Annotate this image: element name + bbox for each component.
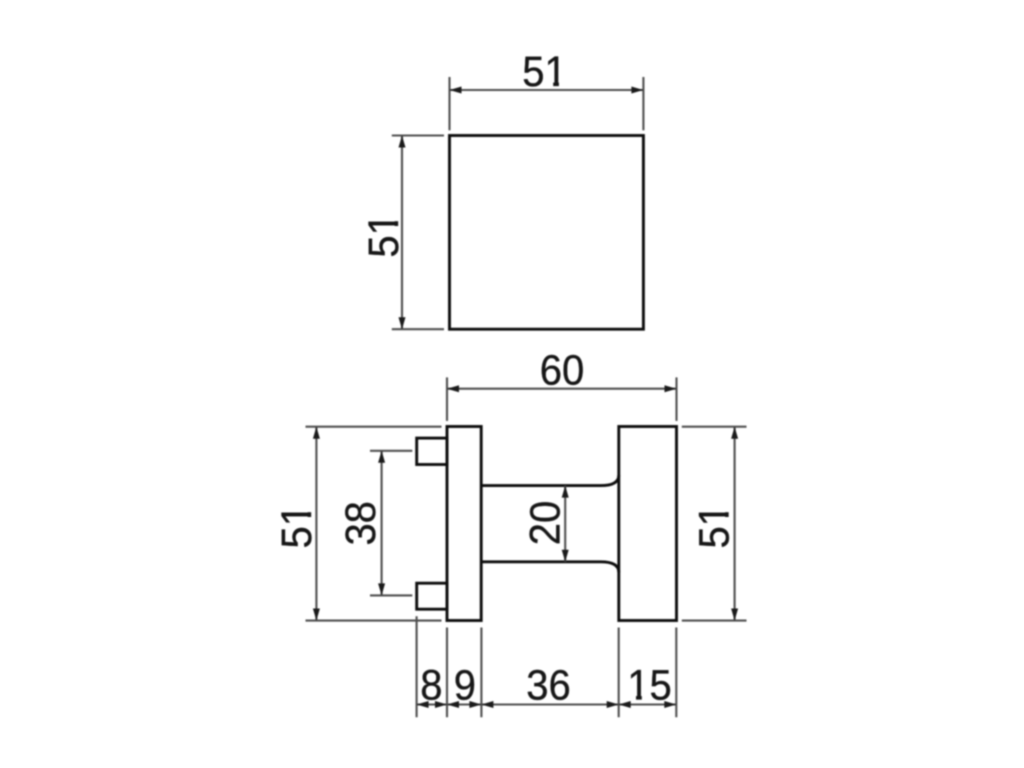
dimension 51 (top view height): top arrowhead xyxy=(399,136,406,148)
dimension 60 (overall depth): extension line right xyxy=(675,377,677,421)
dimension 51 (top view height): label serif mask xyxy=(394,214,400,221)
svg-text:36: 36 xyxy=(526,661,571,709)
chain dimensions: extension line at plate left face xyxy=(446,628,448,718)
dimension 60 (overall depth): extension line left xyxy=(446,377,448,421)
chain dimensions: extension line at knob left face xyxy=(618,628,620,718)
dimension 51 (side view left height): extension line bottom xyxy=(306,620,442,622)
dimension 51 (top view width): left arrowhead xyxy=(450,87,462,94)
svg-text:15: 15 xyxy=(627,661,672,709)
svg-text:51: 51 xyxy=(273,504,321,549)
dimension 20 (neck thickness): bottom arrowhead xyxy=(562,550,569,562)
dimension 51 (top view height): bottom arrowhead xyxy=(399,317,406,329)
dimension 51 (side view right height): extension line bottom xyxy=(682,620,747,622)
dimension 51 (side view right height): dimension line xyxy=(734,427,736,621)
side view: lower mounting stud xyxy=(417,583,447,609)
dimension 51 (top view width): label serif mask xyxy=(546,82,553,88)
dimension 9 (plate thickness): left arrowhead xyxy=(447,701,459,708)
side view: neck bottom edge with fillet xyxy=(481,562,619,572)
dimension 51 (side view right height): label serif mask xyxy=(724,505,730,512)
top view: square knob face outline xyxy=(450,136,644,330)
dimension 51 (side view left height): extension line top xyxy=(306,426,442,428)
dimension 38 (stud spacing): bottom arrowhead xyxy=(378,583,385,595)
dimension 38 (stud spacing): dimension line xyxy=(381,451,383,596)
dimension 51 (top view height): extension line top xyxy=(392,134,444,136)
dimension 51 (side view right height): top arrowhead xyxy=(731,427,738,439)
dimension 51 (side view left height): bottom arrowhead xyxy=(313,609,320,621)
chain dimensions: extension line at knob right face xyxy=(675,628,677,718)
svg-text:9: 9 xyxy=(454,661,476,709)
svg-text:51: 51 xyxy=(360,213,408,258)
dimension 38 (stud spacing): extension line bottom xyxy=(370,594,412,596)
svg-text:51: 51 xyxy=(522,48,567,96)
dimension 51 (top view height): dimension line xyxy=(401,136,403,330)
dimension 51 (side view left height): dimension line xyxy=(315,427,317,621)
dimension 15 (knob thickness): left arrowhead xyxy=(619,701,631,708)
side view: upper mounting stud xyxy=(417,438,447,464)
dimension 51 (top view width): right arrowhead xyxy=(631,87,643,94)
svg-text:38: 38 xyxy=(337,501,385,546)
dimension 36 (neck length): right arrowhead xyxy=(607,701,619,708)
dimension 38 (stud spacing): top arrowhead xyxy=(378,451,385,463)
dimension 51 (side view left height): top arrowhead xyxy=(313,427,320,439)
dimension 60 (overall depth): right arrowhead xyxy=(665,385,677,392)
svg-text:8: 8 xyxy=(420,661,442,709)
dimension 20 (neck thickness): top arrowhead xyxy=(562,486,569,498)
dimension 8 (stud length): right arrowhead xyxy=(435,701,447,708)
side view: rose plate outline xyxy=(447,427,481,621)
dimension 8 (stud length): left arrowhead xyxy=(417,701,429,708)
chain dimensions: dimension line xyxy=(417,703,677,705)
dimension 51 (top view width): dimension line xyxy=(450,89,644,91)
dimension 51 (top view width): extension line left xyxy=(448,77,450,130)
chain dimensions: extension line at stud face xyxy=(416,616,418,717)
dimension 51 (side view right height): extension line top xyxy=(682,426,747,428)
chain dimensions: extension line at plate right face xyxy=(480,628,482,718)
dimension 51 (top view height): extension line bottom xyxy=(392,328,444,330)
dimension 15 (knob thickness): right arrowhead xyxy=(664,701,676,708)
dimension 51 (side view right height): bottom arrowhead xyxy=(731,609,738,621)
dimension 15 (knob thickness): label serif mask xyxy=(629,695,636,701)
dimension 60 (overall depth): left arrowhead xyxy=(447,385,459,392)
dimension 51 (top view width): extension line right xyxy=(642,77,644,130)
dimension 60 (overall depth): dimension line xyxy=(447,388,677,390)
side view: neck top edge with fillet xyxy=(481,475,619,485)
dimension 36 (neck length): left arrowhead xyxy=(481,701,493,708)
svg-text:60: 60 xyxy=(540,346,585,394)
dimension 38 (stud spacing): extension line top xyxy=(370,450,412,452)
dimension 9 (plate thickness): right arrowhead xyxy=(469,701,481,708)
svg-text:51: 51 xyxy=(690,504,738,549)
dimension 20 (neck thickness): dimension line xyxy=(564,486,566,562)
side view: knob body outline xyxy=(619,427,677,621)
dimension 51 (side view left height): label serif mask xyxy=(307,505,313,512)
svg-text:20: 20 xyxy=(522,501,570,546)
